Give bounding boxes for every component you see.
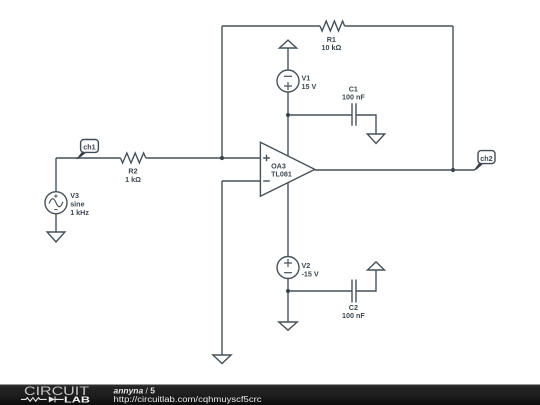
flag ch2: [474, 151, 496, 171]
footer bar: [0, 385, 540, 405]
voltage source V3 sine: [45, 192, 67, 214]
wire V3 bottom: [55, 214, 57, 232]
wire inverting input: [222, 180, 260, 182]
svg-text:http://circuitlab.com/cqhmuysc: http://circuitlab.com/cqhmuyscf5crc: [114, 395, 262, 404]
wire output right vertical: [452, 26, 454, 170]
wire top rail right of R1: [345, 25, 453, 27]
svg-text:100 nF: 100 nF: [342, 92, 365, 101]
wire op-amp output: [315, 169, 475, 171]
svg-text:100 nF: 100 nF: [342, 311, 365, 320]
resistor R1: [320, 21, 345, 31]
voltage source V2: [277, 257, 299, 279]
node junction at V2 ground: [286, 289, 290, 293]
capacitor C1: [352, 103, 356, 126]
wire R2 to op-amp non-inverting input: [146, 157, 261, 159]
logo resistor diode glyph: [21, 396, 64, 402]
wire C2 right: [356, 270, 376, 291]
capacitor C2: [352, 280, 356, 303]
op-amp OA3 triangle: [260, 142, 314, 196]
svg-text:-15 V: -15 V: [302, 269, 319, 278]
wire inverting input to ground: [221, 181, 223, 355]
svg-text:10 kΩ: 10 kΩ: [322, 43, 342, 52]
flag ch1: [76, 140, 98, 160]
wire V+ node to C1: [288, 114, 352, 116]
op-amp plus input symbol: [263, 155, 270, 162]
node junction at output: [451, 168, 455, 172]
svg-text:TL081: TL081: [271, 170, 292, 179]
node junction at feedback and input: [220, 156, 224, 160]
voltage source V1: [277, 70, 299, 92]
wire V1 top stem: [287, 48, 289, 70]
svg-text:ch1: ch1: [83, 143, 95, 152]
wire top rail left of R1: [222, 25, 320, 27]
wire input from V3: [56, 157, 121, 159]
node junction at V+ rail: [286, 113, 290, 117]
resistor R2: [121, 153, 146, 163]
wire V2 ground stem: [287, 291, 289, 322]
wire feedback left vertical: [221, 26, 223, 158]
ground above V1 flipped: [279, 40, 296, 48]
svg-text:15 V: 15 V: [302, 82, 317, 91]
op-amp minus input symbol: [263, 180, 270, 182]
wire op-amp V+ supply pin: [287, 115, 289, 156]
wire ground node to C2: [288, 290, 352, 292]
svg-text:LAB: LAB: [64, 395, 90, 404]
wire C1 right: [356, 115, 376, 134]
wire op-amp V- supply pin: [287, 183, 289, 257]
svg-text:1 kHz: 1 kHz: [70, 208, 89, 217]
svg-text:1 kΩ: 1 kΩ: [125, 175, 141, 184]
wire V1 bottom: [287, 92, 289, 115]
wire V3 top: [55, 158, 57, 192]
ground below V2: [279, 322, 297, 330]
ground above C2 flipped: [368, 262, 385, 270]
ground right of C1: [367, 134, 384, 144]
ground below inverting input: [213, 355, 231, 364]
ground below V3: [47, 232, 65, 242]
svg-text:ch2: ch2: [480, 154, 492, 163]
wire V2 bottom: [287, 279, 289, 292]
